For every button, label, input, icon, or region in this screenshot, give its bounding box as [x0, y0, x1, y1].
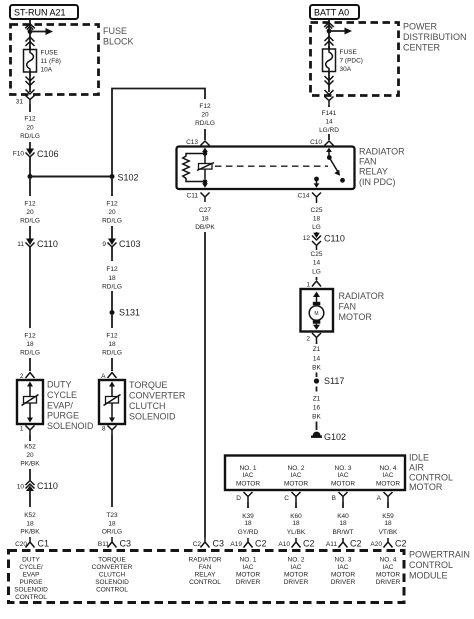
- duty cycle solenoid label: [47, 380, 94, 432]
- svg-text:K59: K59: [382, 513, 394, 520]
- svg-text:MOTOR: MOTOR: [284, 481, 308, 488]
- svg-text:14: 14: [325, 119, 333, 126]
- wire K39 18 GY/RD (IAC no.1 to PCM A19): [238, 502, 259, 536]
- svg-text:C2: C2: [395, 539, 407, 549]
- wire K52 20 PK/BK (solenoid to C110 pin 10): [20, 435, 40, 480]
- wire F12 18 RD/LG (C103 to S131): [102, 247, 122, 310]
- svg-text:MOTOR: MOTOR: [339, 312, 373, 322]
- connector chevrons below fuse 11: [26, 72, 35, 92]
- svg-text:FUSE: FUSE: [103, 26, 127, 36]
- svg-text:FAN: FAN: [199, 564, 212, 571]
- svg-text:RD/LG: RD/LG: [20, 350, 40, 357]
- svg-text:A11: A11: [326, 541, 337, 548]
- svg-text:F12: F12: [24, 116, 36, 123]
- PCM connector C3 pin B11: [98, 537, 131, 549]
- PCM no.3 IAC motor driver label: [331, 557, 356, 587]
- wire Z1 14 BK (motor to S117): [312, 343, 321, 378]
- svg-text:12: 12: [303, 235, 311, 242]
- PCM radiator fan relay control label: [189, 557, 222, 587]
- wire F12 20 RD/LG (fuse block to C106): [20, 104, 40, 149]
- svg-text:20: 20: [26, 452, 34, 459]
- svg-text:C2: C2: [193, 541, 202, 548]
- svg-text:S117: S117: [324, 376, 344, 386]
- svg-text:K39: K39: [242, 513, 254, 520]
- svg-text:DUTY: DUTY: [22, 557, 40, 564]
- svg-text:CONTROL: CONTROL: [409, 560, 453, 570]
- relay C11 terminal: [187, 193, 210, 203]
- svg-text:C1: C1: [38, 539, 50, 549]
- connector C103 pin 9: [102, 239, 140, 250]
- svg-text:RD/LG: RD/LG: [102, 218, 122, 225]
- PCM connector C3 pin C2 (radiator fan relay control): [193, 537, 224, 549]
- junction in PDC: [327, 29, 332, 34]
- svg-text:CLUTCH: CLUTCH: [99, 572, 126, 579]
- torque converter solenoid pin A: [101, 373, 116, 381]
- connector chevrons below fuse 7: [325, 72, 334, 93]
- IAC pin C: [284, 492, 300, 502]
- motor: idle air control motor box: [225, 456, 405, 491]
- svg-text:AIR: AIR: [409, 462, 425, 472]
- svg-text:F12: F12: [199, 103, 211, 110]
- wire K59 18 VT/BK (IAC no.4 to PCM A20): [379, 502, 398, 536]
- svg-text:8: 8: [102, 426, 106, 433]
- svg-text:CONTROL: CONTROL: [15, 594, 47, 601]
- duty cycle solenoid pin 1: [20, 426, 35, 436]
- svg-text:DISTRIBUTION: DISTRIBUTION: [403, 32, 467, 42]
- svg-text:10: 10: [17, 484, 25, 491]
- svg-text:K60: K60: [290, 513, 302, 520]
- svg-text:TORQUE: TORQUE: [98, 557, 126, 564]
- PCM no.2 IAC motor driver label: [284, 557, 309, 587]
- svg-text:FAN: FAN: [359, 157, 377, 167]
- svg-text:18: 18: [26, 341, 34, 348]
- fan motor pin 1: [306, 281, 321, 289]
- svg-text:YL/BK: YL/BK: [287, 529, 306, 536]
- PCM connector C2 pin A11: [326, 538, 362, 549]
- relay C10 terminal: [310, 139, 333, 146]
- svg-text:18: 18: [313, 216, 321, 223]
- svg-text:K52: K52: [24, 512, 36, 519]
- svg-text:20: 20: [26, 124, 34, 131]
- svg-text:CONVERTER: CONVERTER: [129, 391, 186, 401]
- svg-text:MOTOR: MOTOR: [331, 572, 355, 579]
- svg-text:T23: T23: [106, 512, 118, 519]
- solenoid: duty cycle EVAP/purge: [17, 380, 43, 424]
- svg-text:EVAP: EVAP: [23, 572, 40, 579]
- svg-text:C110: C110: [37, 239, 58, 249]
- svg-text:CONTROL: CONTROL: [189, 579, 221, 586]
- svg-text:NO. 3: NO. 3: [335, 465, 352, 472]
- IAC pin A: [377, 492, 393, 502]
- svg-text:NO. 2: NO. 2: [288, 557, 305, 564]
- svg-text:C2: C2: [255, 539, 267, 549]
- svg-text:CYCLE: CYCLE: [47, 390, 77, 400]
- idle air control motor label: [409, 453, 453, 493]
- svg-text:10A: 10A: [41, 67, 53, 74]
- svg-text:POWER: POWER: [403, 22, 438, 32]
- splice S102: [110, 173, 139, 183]
- PCM connector C2 pin A19: [230, 538, 266, 549]
- svg-text:FUSE: FUSE: [340, 49, 358, 56]
- IAC no.1 motor label: [236, 465, 260, 488]
- svg-text:DRIVER: DRIVER: [376, 579, 401, 586]
- svg-text:16: 16: [313, 405, 321, 412]
- svg-text:NO. 3: NO. 3: [335, 557, 352, 564]
- power distribution center label: [403, 22, 467, 53]
- wire BATT A0 into PDC: [324, 19, 334, 49]
- svg-text:C27: C27: [199, 207, 211, 214]
- svg-text:CONTROL: CONTROL: [96, 587, 128, 594]
- svg-text:11: 11: [17, 241, 24, 248]
- node ST-RUN A21: [10, 5, 78, 19]
- wire C106 to splice S102: [29, 157, 31, 176]
- svg-text:7 (PDC): 7 (PDC): [340, 58, 363, 65]
- svg-text:MODULE: MODULE: [409, 570, 448, 580]
- svg-text:F12: F12: [106, 201, 118, 208]
- svg-text:C2: C2: [350, 539, 362, 549]
- svg-text:NO. 4: NO. 4: [380, 465, 397, 472]
- svg-text:DUTY: DUTY: [47, 380, 72, 390]
- svg-text:TORQUE: TORQUE: [129, 380, 167, 390]
- svg-text:SOLENOID: SOLENOID: [129, 412, 176, 422]
- svg-text:B11: B11: [98, 541, 109, 548]
- fuse 11 (F8) 10A: [24, 47, 37, 74]
- svg-text:FUSE: FUSE: [41, 50, 59, 57]
- svg-text:NO. 1: NO. 1: [240, 557, 257, 564]
- svg-text:C: C: [284, 495, 289, 502]
- connector C106 pin F10: [13, 149, 59, 160]
- svg-text:C13: C13: [186, 139, 198, 146]
- svg-text:18: 18: [108, 341, 116, 348]
- svg-text:C2: C2: [303, 539, 315, 549]
- svg-text:C14: C14: [298, 193, 310, 200]
- svg-text:IAC: IAC: [383, 472, 394, 479]
- svg-text:14: 14: [313, 260, 321, 267]
- wire S102 up and over to relay C13: [112, 89, 215, 175]
- svg-text:BATT A0: BATT A0: [314, 8, 349, 18]
- svg-text:RELAY: RELAY: [195, 572, 216, 579]
- svg-text:C10: C10: [310, 139, 322, 146]
- svg-text:31: 31: [16, 99, 24, 106]
- svg-text:PK/BK: PK/BK: [20, 461, 40, 468]
- svg-text:BR/WT: BR/WT: [333, 529, 354, 536]
- radiator fan relay label: [359, 146, 405, 187]
- wire T23 18 OR/LG (solenoid to PCM B11): [102, 435, 122, 536]
- svg-text:S102: S102: [118, 173, 139, 183]
- svg-text:F12: F12: [106, 266, 118, 273]
- svg-text:FAN: FAN: [339, 302, 357, 312]
- power distribution center module (dashed): [311, 23, 399, 96]
- svg-text:14: 14: [313, 356, 321, 363]
- connector chevrons above fuse 11: [26, 37, 35, 46]
- branch arrow to other circuits: [30, 28, 53, 35]
- connector C110 pin 12: [303, 233, 345, 250]
- svg-text:VT/BK: VT/BK: [379, 529, 398, 536]
- svg-text:RD/LG: RD/LG: [20, 133, 40, 140]
- svg-text:RD/LG: RD/LG: [195, 120, 215, 127]
- svg-text:IDLE: IDLE: [409, 453, 429, 463]
- svg-text:F12: F12: [106, 333, 118, 340]
- svg-text:SOLENOID: SOLENOID: [47, 421, 94, 431]
- svg-text:K52: K52: [24, 444, 36, 451]
- svg-text:LG: LG: [312, 224, 321, 231]
- svg-text:LG: LG: [312, 268, 321, 275]
- svg-text:D: D: [236, 495, 241, 502]
- wire K60 18 YL/BK (IAC no.2 to PCM A10): [287, 502, 306, 536]
- svg-text:2: 2: [306, 336, 310, 343]
- wire junction to S102: [30, 176, 112, 178]
- svg-text:F141: F141: [322, 110, 337, 117]
- svg-text:RD/LG: RD/LG: [102, 350, 122, 357]
- svg-text:NO. 1: NO. 1: [240, 465, 257, 472]
- wire C27 18 DB/PK (relay C11 to PCM C2): [195, 207, 215, 537]
- splice S131: [110, 308, 141, 318]
- svg-text:NO. 4: NO. 4: [380, 557, 397, 564]
- relay coil resistor: [183, 154, 205, 182]
- svg-text:18: 18: [339, 520, 347, 527]
- svg-text:OR/LG: OR/LG: [102, 529, 122, 536]
- svg-text:CLUTCH: CLUTCH: [129, 401, 166, 411]
- svg-text:BLOCK: BLOCK: [103, 37, 134, 47]
- solenoid: torque converter clutch: [99, 380, 125, 424]
- svg-text:IAC: IAC: [243, 564, 254, 571]
- wire K40 18 BR/WT (IAC no.3 to PCM A11): [333, 502, 354, 536]
- IAC no.4 motor label: [376, 465, 400, 488]
- relay switch blade: [329, 158, 345, 183]
- IAC no.2 motor label: [284, 465, 308, 488]
- IAC no.3 motor label: [331, 465, 355, 488]
- relay coil branch (C13 side): [202, 148, 208, 164]
- svg-text:MOTOR: MOTOR: [376, 572, 400, 579]
- wire F12 18 RD/LG (C110 to duty cycle solenoid): [20, 247, 40, 371]
- svg-text:30A: 30A: [340, 66, 352, 73]
- radiator fan motor label: [339, 291, 385, 322]
- connector chevrons above fuse 7: [325, 37, 334, 46]
- fuse 7 value label: [340, 49, 363, 73]
- svg-text:A10: A10: [278, 541, 290, 548]
- wire F12 20 RD/LG (S102 down to C103 pin 9): [102, 179, 122, 239]
- svg-text:C3: C3: [120, 539, 132, 549]
- svg-text:C106: C106: [37, 149, 59, 159]
- svg-text:BK: BK: [312, 365, 321, 372]
- svg-text:IAC: IAC: [338, 564, 349, 571]
- relay C13 terminal: [186, 139, 209, 146]
- svg-text:PURGE: PURGE: [47, 411, 79, 421]
- svg-text:20: 20: [201, 112, 209, 119]
- ground G102: [311, 432, 346, 442]
- svg-text:EVAP/: EVAP/: [47, 400, 73, 410]
- svg-text:IAC: IAC: [338, 472, 349, 479]
- svg-text:18: 18: [108, 275, 116, 282]
- branch arrow to other circuits (PDC): [329, 28, 352, 35]
- svg-text:PK/BK: PK/BK: [20, 529, 40, 536]
- wire C25 18 LG (C14 to C110 pin 12): [311, 207, 323, 233]
- motor: radiator fan motor: [301, 289, 334, 332]
- PCM duty cycle/evap purge solenoid control label: [14, 557, 48, 602]
- relay coil: [197, 163, 214, 188]
- svg-text:K40: K40: [337, 513, 349, 520]
- relay output terminal C14: [314, 177, 320, 188]
- relay: radiator fan relay box: [177, 147, 355, 190]
- PCM no.1 IAC motor driver label: [236, 557, 261, 587]
- junction at left of S102 branch: [28, 174, 33, 179]
- PCM torque converter clutch solenoid control label: [92, 557, 133, 594]
- svg-text:DRIVER: DRIVER: [331, 579, 356, 586]
- svg-text:RADIATOR: RADIATOR: [189, 557, 222, 564]
- wire ST-RUN A21 into fuse block: [25, 19, 35, 49]
- svg-text:PURGE: PURGE: [19, 579, 43, 586]
- svg-text:CONTROL: CONTROL: [409, 472, 453, 482]
- junction in fuse block: [28, 29, 33, 34]
- svg-text:IAC: IAC: [291, 564, 302, 571]
- svg-text:MOTOR: MOTOR: [409, 482, 443, 492]
- svg-text:A: A: [377, 495, 382, 502]
- svg-text:C20: C20: [15, 541, 27, 548]
- svg-text:SOLENOID: SOLENOID: [14, 587, 48, 594]
- svg-text:MOTOR: MOTOR: [331, 481, 355, 488]
- svg-text:M: M: [314, 311, 318, 317]
- svg-text:DRIVER: DRIVER: [236, 579, 261, 586]
- svg-text:11 (F8): 11 (F8): [41, 58, 61, 65]
- svg-text:POWERTRAIN: POWERTRAIN: [409, 550, 470, 560]
- node BATT A0: [310, 5, 359, 19]
- svg-text:MOTOR: MOTOR: [236, 481, 260, 488]
- svg-text:C103: C103: [119, 239, 141, 249]
- wire C25 14 LG (C110 to fan motor pin 1): [311, 251, 323, 280]
- svg-text:B: B: [332, 495, 336, 502]
- svg-text:A20: A20: [370, 541, 382, 548]
- svg-text:ST-RUN A21: ST-RUN A21: [14, 8, 66, 18]
- svg-text:18: 18: [384, 520, 392, 527]
- svg-text:18: 18: [108, 520, 116, 527]
- svg-text:20: 20: [108, 209, 116, 216]
- svg-text:IAC: IAC: [291, 472, 302, 479]
- powertrain control module (dashed): [9, 551, 405, 603]
- relay C14 terminal (below box): [298, 193, 321, 204]
- svg-text:RELAY: RELAY: [359, 167, 388, 177]
- svg-text:1: 1: [20, 426, 24, 433]
- svg-text:CENTER: CENTER: [403, 43, 441, 53]
- connector C110 pin 10: [17, 481, 58, 492]
- svg-text:F10: F10: [13, 151, 25, 158]
- svg-text:CYCLE/: CYCLE/: [19, 564, 43, 571]
- svg-text:18: 18: [201, 216, 209, 223]
- wire F141 14 LG/RD (PDC to C10): [319, 105, 339, 140]
- svg-text:G102: G102: [324, 432, 346, 442]
- relay actuation dashed link: [215, 165, 328, 167]
- torque converter solenoid label: [129, 380, 186, 422]
- torque converter solenoid pin 8: [102, 426, 117, 436]
- svg-text:(IN PDC): (IN PDC): [359, 177, 396, 187]
- svg-text:GY/RD: GY/RD: [238, 529, 259, 536]
- svg-text:CONVERTER: CONVERTER: [92, 564, 133, 571]
- svg-text:F12: F12: [24, 333, 36, 340]
- svg-text:DB/PK: DB/PK: [195, 224, 215, 231]
- svg-text:MOTOR: MOTOR: [284, 572, 308, 579]
- IAC pin D: [236, 492, 252, 502]
- fuse block exit connector pin 31: [16, 90, 35, 106]
- svg-text:C3: C3: [213, 539, 225, 549]
- svg-text:BK: BK: [312, 414, 321, 421]
- svg-text:LG/RD: LG/RD: [319, 127, 339, 134]
- fuse block label: [103, 26, 134, 47]
- svg-text:MOTOR: MOTOR: [236, 572, 260, 579]
- wire F12 20 RD/LG (S102 to C110 pin 11): [20, 179, 40, 239]
- svg-text:IAC: IAC: [243, 472, 254, 479]
- svg-text:RADIATOR: RADIATOR: [359, 146, 405, 156]
- powertrain control module label: [409, 550, 470, 581]
- PCM connector C1 pin C20: [15, 537, 49, 549]
- IAC pin B: [332, 492, 348, 502]
- svg-text:RADIATOR: RADIATOR: [339, 291, 385, 301]
- svg-text:9: 9: [102, 241, 106, 248]
- svg-text:C25: C25: [311, 207, 323, 214]
- svg-text:C110: C110: [37, 481, 58, 491]
- svg-text:18: 18: [26, 520, 34, 527]
- svg-text:18: 18: [244, 520, 252, 527]
- svg-text:C11: C11: [187, 193, 199, 200]
- PCM connector C2 pin A20: [370, 538, 406, 549]
- svg-text:C110: C110: [324, 234, 345, 244]
- svg-text:MOTOR: MOTOR: [376, 481, 400, 488]
- svg-text:Z1: Z1: [313, 346, 321, 353]
- fuse 11 value label: [41, 50, 61, 74]
- PCM connector C2 pin A10: [278, 538, 314, 549]
- svg-text:RD/LG: RD/LG: [20, 218, 40, 225]
- svg-text:1: 1: [306, 282, 310, 289]
- wire Z1 16 BK (S117 to G102): [312, 387, 321, 431]
- splice S117: [314, 376, 344, 386]
- svg-text:IAC: IAC: [383, 564, 394, 571]
- svg-text:C25: C25: [311, 251, 323, 258]
- wire K52 18 PK/BK (C110 to PCM C20): [20, 490, 40, 536]
- svg-text:A19: A19: [230, 541, 242, 548]
- svg-text:RD/LG: RD/LG: [102, 284, 122, 291]
- fan motor pin 2: [306, 333, 321, 343]
- svg-text:S131: S131: [119, 308, 140, 318]
- svg-text:DRIVER: DRIVER: [284, 579, 309, 586]
- svg-text:NO. 2: NO. 2: [288, 465, 305, 472]
- wire F12 18 RD/LG (S131 to torque converter solenoid): [102, 315, 122, 371]
- connector C110 pin 11: [17, 239, 58, 250]
- svg-text:18: 18: [292, 520, 300, 527]
- svg-text:F12: F12: [24, 201, 36, 208]
- svg-text:Z1: Z1: [313, 396, 321, 403]
- fuse 7 (PDC) 30A: [323, 46, 336, 73]
- fuse block module (dashed): [11, 25, 99, 95]
- PCM no.4 IAC motor driver label: [376, 557, 401, 587]
- svg-text:SOLENOID: SOLENOID: [95, 579, 129, 586]
- PDC exit connector: [325, 90, 334, 105]
- svg-text:20: 20: [26, 209, 34, 216]
- duty cycle solenoid pin 2: [20, 373, 35, 381]
- relay switch common (C10 side): [326, 148, 332, 160]
